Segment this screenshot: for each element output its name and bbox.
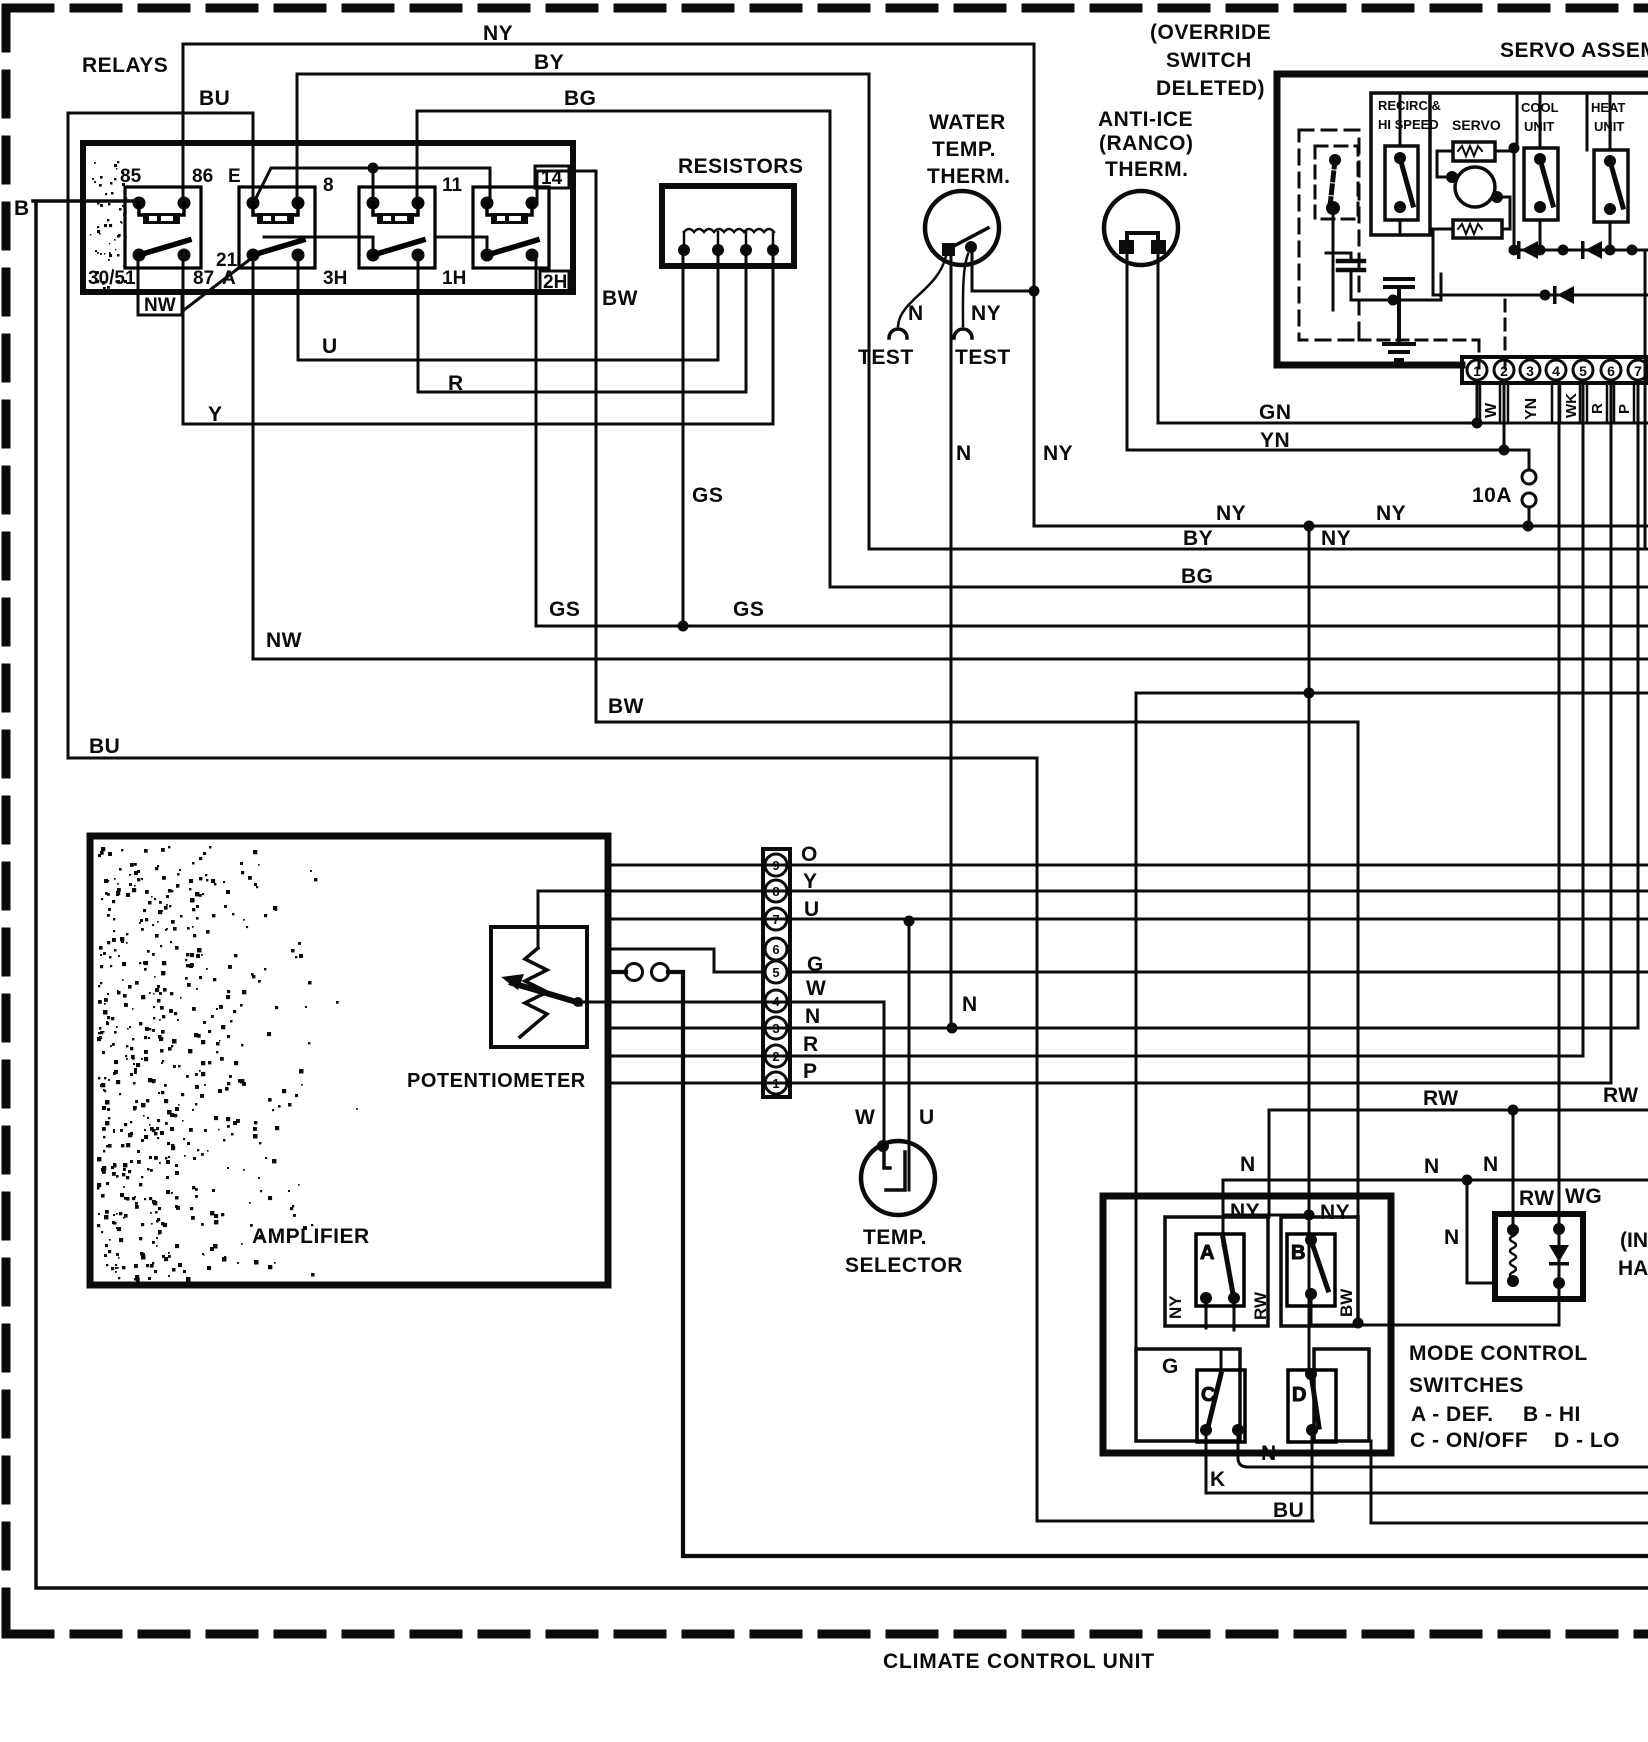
svg-text:R: R [1589, 403, 1606, 414]
svg-text:THERM.: THERM. [1105, 158, 1189, 181]
svg-text:TEST: TEST [858, 346, 914, 369]
svg-text:GS: GS [549, 598, 580, 621]
wire BW [537, 171, 1559, 1325]
test hooks [889, 329, 907, 338]
svg-text:SERVO ASSEMB: SERVO ASSEMB [1500, 39, 1648, 62]
servo resistor 2 [1453, 220, 1502, 238]
svg-text:HI SPEED: HI SPEED [1378, 117, 1439, 132]
svg-text:(IN: (IN [1620, 1229, 1648, 1252]
wire G mode [1136, 693, 1648, 1378]
servo wiring [1433, 151, 1514, 295]
wire pin2 stub [1503, 382, 1506, 450]
pin 1 [1467, 360, 1487, 380]
svg-text:3: 3 [1526, 363, 1534, 379]
svg-text:R: R [803, 1033, 819, 1056]
pin cell borders [1480, 383, 1634, 423]
wire W pot wiper [577, 1002, 884, 1143]
wire K [1206, 1430, 1648, 1493]
svg-text:86: 86 [192, 166, 213, 187]
svg-text:P: P [1616, 404, 1633, 414]
svg-text:1: 1 [772, 1076, 779, 1091]
svg-text:7: 7 [1634, 363, 1642, 379]
wire BU top [68, 113, 1313, 1521]
resistor taps [684, 232, 773, 250]
svg-text:8: 8 [323, 175, 334, 196]
svg-text:BU: BU [1273, 1499, 1304, 1522]
wire RW [1269, 1110, 1648, 1217]
wire O [608, 864, 1648, 867]
heat unit switch [1594, 150, 1628, 222]
svg-text:W: W [806, 977, 826, 1000]
svg-text:CLIMATE CONTROL UNIT: CLIMATE CONTROL UNIT [883, 1650, 1155, 1673]
wire BY [297, 74, 1648, 549]
pin 6 [1601, 360, 1621, 380]
NW terminal box [138, 292, 182, 315]
svg-text:ANTI-ICE: ANTI-ICE [1098, 108, 1193, 131]
svg-text:2: 2 [772, 1049, 779, 1064]
svg-text:NY: NY [1230, 1200, 1260, 1223]
wire N bottom [1238, 1430, 1648, 1467]
svg-text:P: P [803, 1060, 818, 1083]
svg-text:30/51: 30/51 [88, 268, 136, 289]
pin wire labels (rotated) [1483, 393, 1633, 420]
wire A stubs [1206, 1298, 1234, 1330]
servo assembly outer box [1277, 74, 1648, 365]
svg-text:R: R [448, 372, 464, 395]
wire YN [1127, 253, 1529, 468]
svg-text:11: 11 [442, 175, 463, 196]
recirc & hi speed switch [1385, 146, 1418, 220]
svg-text:6: 6 [772, 942, 779, 957]
svg-text:G: G [1162, 1355, 1179, 1378]
dashed override boxes [1299, 130, 1359, 340]
svg-text:WATER: WATER [929, 111, 1006, 134]
wire NY mode vertical [1308, 526, 1311, 1240]
svg-text:BG: BG [564, 87, 597, 110]
svg-text:N: N [805, 1005, 821, 1028]
amp pin 5 [765, 961, 787, 983]
wire pin7 vertical [1637, 382, 1640, 1028]
svg-text:O: O [801, 843, 818, 866]
svg-text:9: 9 [772, 858, 779, 873]
relay labels [82, 54, 567, 316]
potentiometer box [491, 927, 587, 1047]
wire N mode [1223, 1180, 1648, 1245]
diode row [1514, 249, 1648, 252]
svg-text:W: W [855, 1106, 875, 1129]
N test lead [898, 256, 946, 326]
svg-text:7: 7 [772, 912, 779, 927]
harness relay coil [1510, 1230, 1516, 1278]
caption: CLIMATE CONTROL UNIT [883, 1650, 1155, 1673]
wire R [418, 250, 746, 392]
svg-text:14: 14 [541, 168, 563, 189]
svg-text:NY: NY [971, 302, 1001, 325]
svg-text:N: N [1483, 1153, 1499, 1176]
svg-text:BW: BW [1337, 1288, 1356, 1317]
resistors box [662, 186, 794, 266]
svg-text:B: B [1291, 1242, 1306, 1264]
harness labels [1423, 1084, 1648, 1280]
water temp thermostat [925, 191, 999, 265]
svg-text:RELAYS: RELAYS [82, 54, 168, 77]
wire N harness drop [1467, 1180, 1495, 1283]
svg-text:Y: Y [803, 870, 818, 893]
svg-text:RW: RW [1423, 1087, 1459, 1110]
svg-text:B - HI: B - HI [1523, 1403, 1581, 1426]
relay block box [83, 143, 573, 292]
svg-text:SERVO: SERVO [1452, 117, 1501, 133]
amp pin 3 [765, 1017, 787, 1039]
svg-text:RW: RW [1251, 1291, 1270, 1320]
svg-text:NY: NY [1043, 442, 1073, 465]
ground [1384, 344, 1414, 360]
wire contact wire [608, 972, 1648, 1556]
wire B-D vertical [1308, 1240, 1311, 1378]
unit labels [1378, 98, 1625, 134]
svg-text:A: A [1200, 1242, 1215, 1264]
svg-text:N: N [1424, 1155, 1440, 1178]
servo inner box [1371, 93, 1648, 235]
pin 7 [1628, 360, 1648, 380]
amp pin 4 [765, 990, 787, 1012]
svg-text:N: N [956, 442, 972, 465]
BY servo feed [1644, 250, 1647, 549]
svg-text:HARNE: HARNE [1618, 1257, 1648, 1280]
switch A internals [1200, 1292, 1240, 1304]
svg-text:THERM.: THERM. [927, 165, 1011, 188]
D container box [1314, 1349, 1369, 1441]
wire N amp [608, 1027, 1638, 1030]
amp pin 7 [765, 908, 787, 930]
mode labels [1162, 1153, 1356, 1522]
contact pair [626, 964, 643, 981]
svg-text:BW: BW [608, 695, 644, 718]
wire U [298, 250, 718, 360]
relay R3 1H [359, 187, 435, 268]
relay R4 2H [473, 187, 549, 268]
svg-text:G: G [807, 953, 824, 976]
lower diode line [1433, 294, 1648, 297]
mode control box [1103, 1196, 1391, 1453]
svg-text:RW: RW [1519, 1187, 1555, 1210]
wire N right leg [1371, 1441, 1648, 1523]
svg-text:3H: 3H [323, 268, 347, 289]
relay R1 30/51-87 [125, 187, 201, 268]
svg-text:1H: 1H [442, 268, 466, 289]
pin 3 [1520, 360, 1540, 380]
wire N therm [950, 255, 953, 1027]
wire pin6 vertical [1610, 382, 1613, 1083]
wire pin1 stub [1476, 382, 1479, 423]
pin 4 [1546, 360, 1566, 380]
wire NY therm link [972, 252, 1034, 291]
mode control switch B [1287, 1234, 1335, 1306]
svg-text:DELETED): DELETED) [1156, 77, 1265, 100]
scan speckle texture [110, 965, 112, 967]
svg-text:E: E [228, 166, 241, 187]
switch D internals [1305, 1368, 1318, 1436]
amp pin labels [801, 843, 826, 1083]
servo connector strip [1462, 357, 1648, 383]
svg-text:BG: BG [1181, 565, 1214, 588]
svg-text:D: D [1292, 1384, 1307, 1406]
svg-text:SWITCHES: SWITCHES [1409, 1374, 1524, 1397]
capacitor 1 [1326, 253, 1441, 300]
svg-text:A - DEF.: A - DEF. [1411, 1403, 1494, 1426]
mode control switch A [1196, 1234, 1244, 1306]
wire U selector [908, 921, 911, 1190]
svg-text:10A: 10A [1472, 484, 1512, 507]
override switch deleted note [1150, 21, 1271, 100]
svg-text:C - ON/OFF: C - ON/OFF [1410, 1429, 1528, 1452]
svg-text:TEST: TEST [955, 346, 1011, 369]
harness diode [1558, 1229, 1561, 1283]
svg-text:NY: NY [483, 22, 513, 45]
wire P amp [608, 1082, 1611, 1085]
wire labels [14, 22, 1512, 758]
wire GS [536, 250, 1648, 626]
amp pin 6 [765, 938, 787, 960]
wire pin5 vertical [1582, 382, 1585, 1056]
cool unit switch [1524, 148, 1558, 220]
switch B internals [1305, 1234, 1317, 1300]
amplifier box [90, 836, 608, 1285]
wire Y [183, 250, 773, 424]
wire E [253, 168, 490, 204]
svg-text:N: N [962, 993, 978, 1016]
wire pin4 WK vertical [1558, 382, 1561, 1229]
svg-text:(OVERRIDE: (OVERRIDE [1150, 21, 1271, 44]
svg-text:TEMP.: TEMP. [932, 138, 996, 161]
svg-text:8: 8 [772, 884, 779, 899]
svg-text:A: A [222, 268, 236, 289]
amplifier connector strip [763, 849, 790, 1097]
fuse 10A [1522, 470, 1536, 484]
svg-text:RECIRC &: RECIRC & [1378, 98, 1441, 113]
svg-text:87: 87 [193, 268, 214, 289]
potentiometer resistor zigzag [520, 948, 547, 1037]
2H terminal box [540, 271, 569, 292]
svg-text:1: 1 [1473, 363, 1481, 379]
svg-text:B: B [14, 197, 30, 220]
svg-text:5: 5 [772, 965, 779, 980]
anti-ice (ranco) thermostat [1104, 191, 1178, 265]
dashed border: climate control unit outline [6, 4, 1648, 13]
svg-text:(RANCO): (RANCO) [1099, 132, 1193, 155]
svg-text:NY: NY [1320, 1201, 1350, 1224]
svg-text:U: U [919, 1106, 935, 1129]
wire fuse to NY [1528, 508, 1531, 526]
servo motor [1455, 167, 1495, 207]
svg-text:NY: NY [1321, 527, 1351, 550]
svg-text:YN: YN [1260, 429, 1290, 452]
svg-text:WG: WG [1565, 1185, 1602, 1208]
wire D stub [1311, 1430, 1314, 1521]
svg-text:NW: NW [266, 629, 302, 652]
svg-text:5: 5 [1579, 363, 1587, 379]
svg-text:4: 4 [772, 994, 780, 1009]
svg-text:NY: NY [1216, 502, 1246, 525]
svg-text:K: K [1210, 1468, 1226, 1491]
svg-text:GS: GS [733, 598, 764, 621]
svg-text:BU: BU [199, 87, 230, 110]
wire RW harness drop [1512, 1110, 1515, 1230]
wire NY [183, 44, 1648, 526]
resistor element (wavy) [684, 229, 774, 232]
wire B [33, 201, 1648, 1588]
svg-text:SELECTOR: SELECTOR [845, 1254, 963, 1277]
svg-text:YN: YN [1523, 398, 1540, 420]
wire Y pot [538, 891, 1648, 948]
mode control switch D [1288, 1370, 1336, 1442]
svg-text:BY: BY [1183, 527, 1213, 550]
svg-text:2H: 2H [543, 272, 567, 293]
svg-text:N: N [1240, 1153, 1256, 1176]
svg-text:BU: BU [89, 735, 120, 758]
mode control switch C [1197, 1370, 1245, 1442]
svg-text:GN: GN [1259, 401, 1292, 424]
capacitor 2 [1385, 279, 1413, 342]
svg-text:POTENTIOMETER: POTENTIOMETER [407, 1070, 586, 1092]
C container box [1136, 1349, 1240, 1441]
svg-text:MODE CONTROL: MODE CONTROL [1409, 1342, 1588, 1365]
amp pin 1 [765, 1072, 787, 1094]
svg-text:NW: NW [144, 295, 176, 316]
wire U amp [608, 918, 1648, 921]
svg-text:N: N [1261, 1442, 1277, 1465]
in-line harness relay box [1495, 1214, 1583, 1299]
wire R amp [608, 1055, 1583, 1058]
servo resistor 1 [1453, 142, 1495, 161]
svg-text:BW: BW [602, 287, 638, 310]
svg-text:6: 6 [1607, 363, 1615, 379]
svg-text:HEAT: HEAT [1591, 100, 1625, 115]
svg-text:BY: BY [534, 51, 564, 74]
wire NW [253, 258, 1648, 659]
svg-text:4: 4 [1552, 363, 1560, 379]
svg-text:3: 3 [772, 1021, 779, 1036]
wire G [608, 949, 1648, 972]
switch C internals [1200, 1424, 1244, 1436]
temp selector [861, 1141, 935, 1215]
svg-text:N: N [908, 302, 924, 325]
svg-text:AMPLIFIER: AMPLIFIER [252, 1225, 370, 1248]
svg-text:RW: RW [1603, 1084, 1639, 1107]
amp pin 2 [765, 1045, 787, 1067]
relay R2 A-3H [239, 187, 315, 268]
amp pin 9 [765, 854, 787, 876]
A/B container box [1165, 1217, 1268, 1326]
svg-text:N: N [1444, 1226, 1460, 1249]
svg-text:RESISTORS: RESISTORS [678, 155, 803, 178]
wire GN [1158, 253, 1648, 423]
14 terminal box [535, 166, 569, 188]
svg-text:NY: NY [1166, 1295, 1185, 1319]
svg-text:D - LO: D - LO [1554, 1429, 1620, 1452]
svg-text:WK: WK [1563, 393, 1580, 418]
svg-text:GS: GS [692, 484, 723, 507]
wire relay feed link [264, 237, 487, 250]
svg-text:TEMP.: TEMP. [863, 1226, 927, 1249]
svg-text:W: W [1483, 402, 1500, 418]
svg-text:U: U [804, 898, 820, 921]
NY test lead [963, 254, 968, 326]
svg-text:Y: Y [208, 403, 223, 426]
svg-text:SWITCH: SWITCH [1166, 49, 1252, 72]
svg-text:2: 2 [1500, 363, 1508, 379]
potentiometer wiper [512, 983, 580, 1003]
svg-text:U: U [322, 335, 338, 358]
pin 2 [1494, 360, 1514, 380]
pin 5 [1573, 360, 1593, 380]
wire BG [417, 111, 1648, 587]
deleted switch [1326, 154, 1341, 215]
wire NY A-B link [1223, 1214, 1309, 1217]
wire NW diagonal [138, 256, 253, 310]
amp pin 8 [765, 880, 787, 902]
svg-text:NY: NY [1376, 502, 1406, 525]
